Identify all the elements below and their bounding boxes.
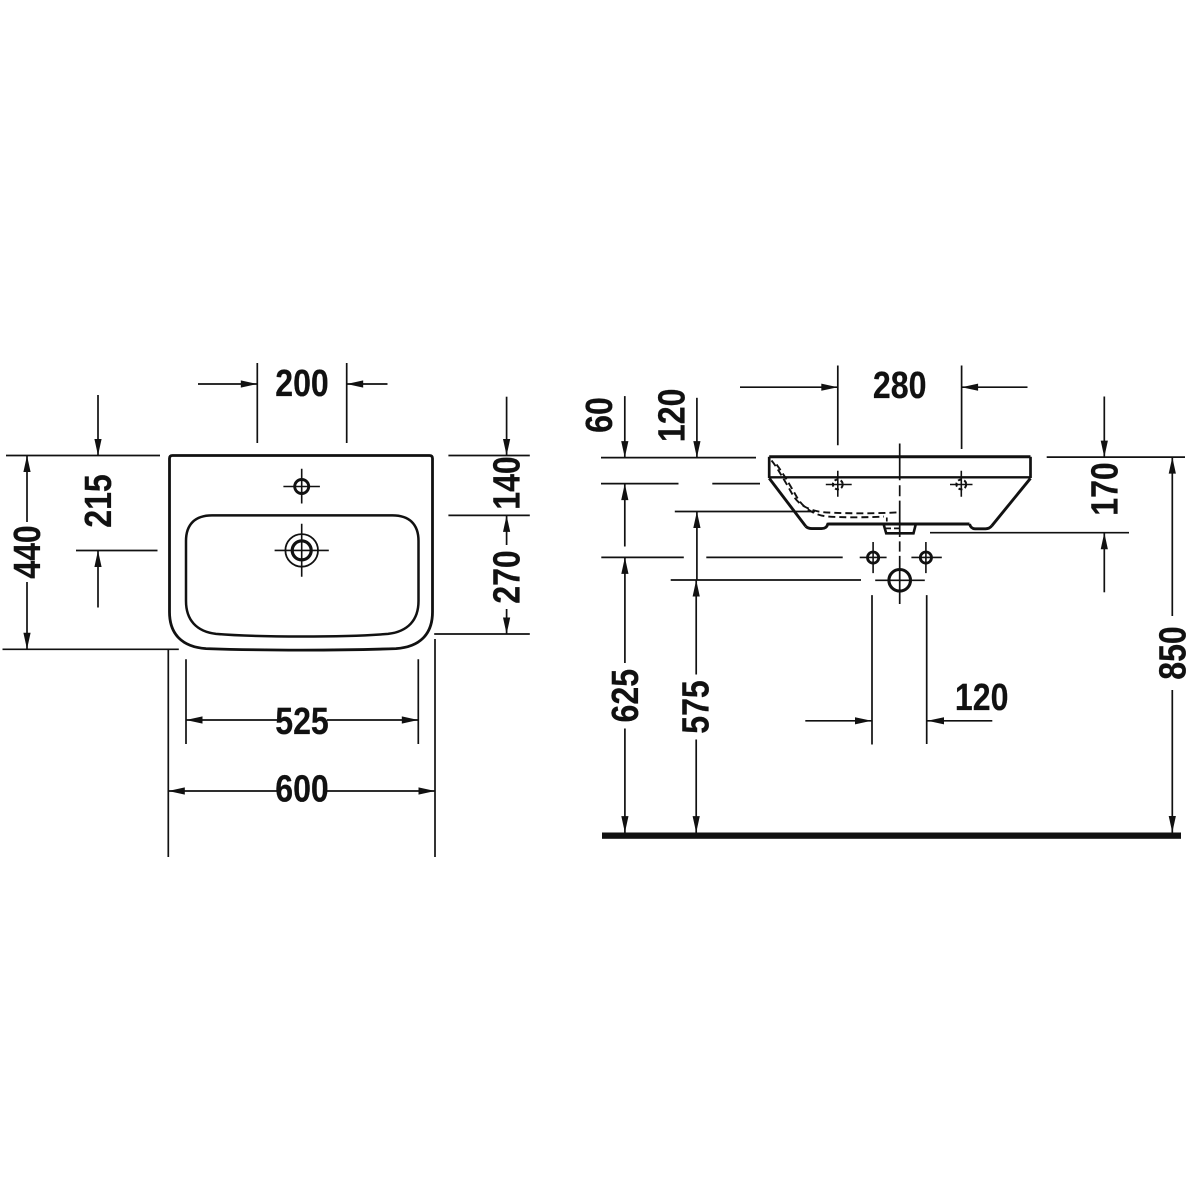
dim 280 dimension line left <box>740 386 838 388</box>
svg-text:170: 170 <box>1084 462 1126 516</box>
mounting hole right crosshair <box>911 542 941 573</box>
ground line <box>602 833 1181 839</box>
svg-text:440: 440 <box>7 525 49 579</box>
dashed tab detail horizontal <box>886 527 899 529</box>
dim 270 extension line <box>434 633 530 635</box>
dim 140 upper tail <box>506 397 508 456</box>
dim 850 dimension line <box>1171 457 1173 832</box>
svg-text:60: 60 <box>579 397 621 433</box>
dim 120 bottom dimension line right <box>928 720 993 722</box>
side drain tab <box>884 525 916 534</box>
svg-text:200: 200 <box>275 363 329 405</box>
dim 215 arrow up <box>94 551 101 568</box>
dim 120 top arrow up <box>693 512 700 529</box>
dim 270 lower segment <box>506 609 508 634</box>
dim 140 arrow down <box>503 439 510 456</box>
side rim line <box>769 476 1030 478</box>
dim 170 extension line <box>930 532 1129 534</box>
drain pipe crosshair <box>875 579 925 581</box>
dim 215 arrow down <box>94 439 101 456</box>
dim 525 arrows <box>186 716 203 723</box>
dim 850 top extension line <box>1047 456 1185 458</box>
dim 280 arrow right <box>962 384 979 391</box>
dim 200 dimension line left <box>198 383 257 385</box>
side right foot <box>970 524 992 529</box>
faucet hole crosshair <box>283 469 320 504</box>
svg-text:140: 140 <box>487 456 529 510</box>
dim 440 dimension line <box>26 456 28 650</box>
dim 170 upper tail <box>1103 397 1105 458</box>
deck hole cross left lines <box>826 471 852 497</box>
dim 215 upper tail <box>97 395 99 456</box>
dim 200 extension lines <box>257 363 346 443</box>
dim 120 bottom dimension line left <box>805 720 871 722</box>
dim 625 dimension line <box>624 557 626 832</box>
svg-text:600: 600 <box>275 769 329 811</box>
dim 170 arrow up <box>1101 533 1108 550</box>
dim 625 arrows <box>621 557 628 574</box>
dashed tab detail vertical <box>886 518 888 524</box>
dim 120 bottom arrow right <box>928 717 945 724</box>
dim 120 top lower tail <box>696 512 698 581</box>
dim 120 top upper line <box>696 398 698 458</box>
dim 215 extension line <box>76 550 158 552</box>
dim 525 dimension line <box>186 719 418 721</box>
basin inner outline <box>186 515 419 636</box>
svg-text:215: 215 <box>78 474 120 528</box>
dim 280 extension lines <box>838 366 962 450</box>
dim 120 bottom extension lines <box>872 595 927 744</box>
ext line mounting holes level <box>601 556 842 558</box>
side left foot and bottom edge <box>806 524 970 529</box>
dim 140 extension line bottom <box>448 514 529 516</box>
dim 270 arrow up with tail <box>506 515 508 545</box>
side outline left edge <box>768 457 771 478</box>
dim 440 extension line bottom <box>3 648 179 650</box>
dashed bowl curve outer <box>772 461 899 514</box>
svg-text:270: 270 <box>487 550 529 604</box>
side outline top edge <box>769 455 1030 458</box>
dim 200 arrow right <box>347 380 364 387</box>
dim 600 dimension line <box>168 790 435 792</box>
svg-text:280: 280 <box>873 365 927 407</box>
dim 120 bottom arrow left <box>855 717 872 724</box>
dim 600 arrows <box>168 787 185 794</box>
dim 270 arrow down <box>503 618 510 635</box>
ext line bowl lip level <box>675 511 815 513</box>
dim 120 top arrow down <box>693 441 700 458</box>
svg-text:525: 525 <box>275 701 329 743</box>
deck hole cross left circle <box>833 480 843 490</box>
dim 140 extension line top <box>448 455 529 457</box>
dim 60 arrow up <box>621 484 628 501</box>
svg-text:120: 120 <box>955 677 1009 719</box>
deck hole cross right lines <box>950 471 973 497</box>
dim 200 arrow left <box>241 380 258 387</box>
side outline right edge <box>1029 457 1032 478</box>
svg-text:625: 625 <box>605 669 647 723</box>
drain crosshair <box>275 524 329 577</box>
ext line hole level <box>601 483 760 485</box>
dim 440 arrows <box>23 456 30 473</box>
dim 170 lower tail <box>1103 533 1105 593</box>
dim 440 extension line top <box>6 455 160 457</box>
centerline (dash-dot) <box>899 444 901 605</box>
dim 600 extension lines <box>168 639 435 857</box>
drain outer circle <box>285 534 318 567</box>
svg-text:850: 850 <box>1152 626 1194 680</box>
deck hole cross right circle <box>956 480 966 490</box>
dim 575 dimension line <box>695 580 697 833</box>
dim 215 lower tail <box>97 551 99 608</box>
dim 60 arrow down <box>621 441 628 458</box>
dashed bowl curve inner <box>777 465 885 518</box>
dim 575 arrows <box>693 580 700 597</box>
mounting hole left <box>868 552 879 563</box>
side left slope <box>769 478 806 526</box>
dim 60 lower tail <box>624 484 626 547</box>
drain inner circle <box>292 541 311 560</box>
svg-text:120: 120 <box>651 389 693 443</box>
side right slope <box>992 478 1031 526</box>
dim 280 dimension line right <box>962 386 1028 388</box>
mounting hole right <box>920 552 931 563</box>
dim 170 arrow down <box>1101 441 1108 458</box>
dim 850 arrows <box>1169 457 1176 474</box>
basin outer outline <box>170 456 433 651</box>
ext line top level <box>601 457 756 459</box>
faucet hole circle <box>295 480 309 494</box>
ext line drain level <box>671 579 861 581</box>
mounting hole left crosshair <box>860 542 887 573</box>
dim 280 arrow left <box>821 384 838 391</box>
dim 200 dimension line right <box>347 383 388 385</box>
dim 525 extension lines <box>186 659 418 744</box>
drain pipe circle <box>889 570 911 592</box>
dim 60 upper line <box>624 396 626 458</box>
svg-text:575: 575 <box>676 680 718 734</box>
